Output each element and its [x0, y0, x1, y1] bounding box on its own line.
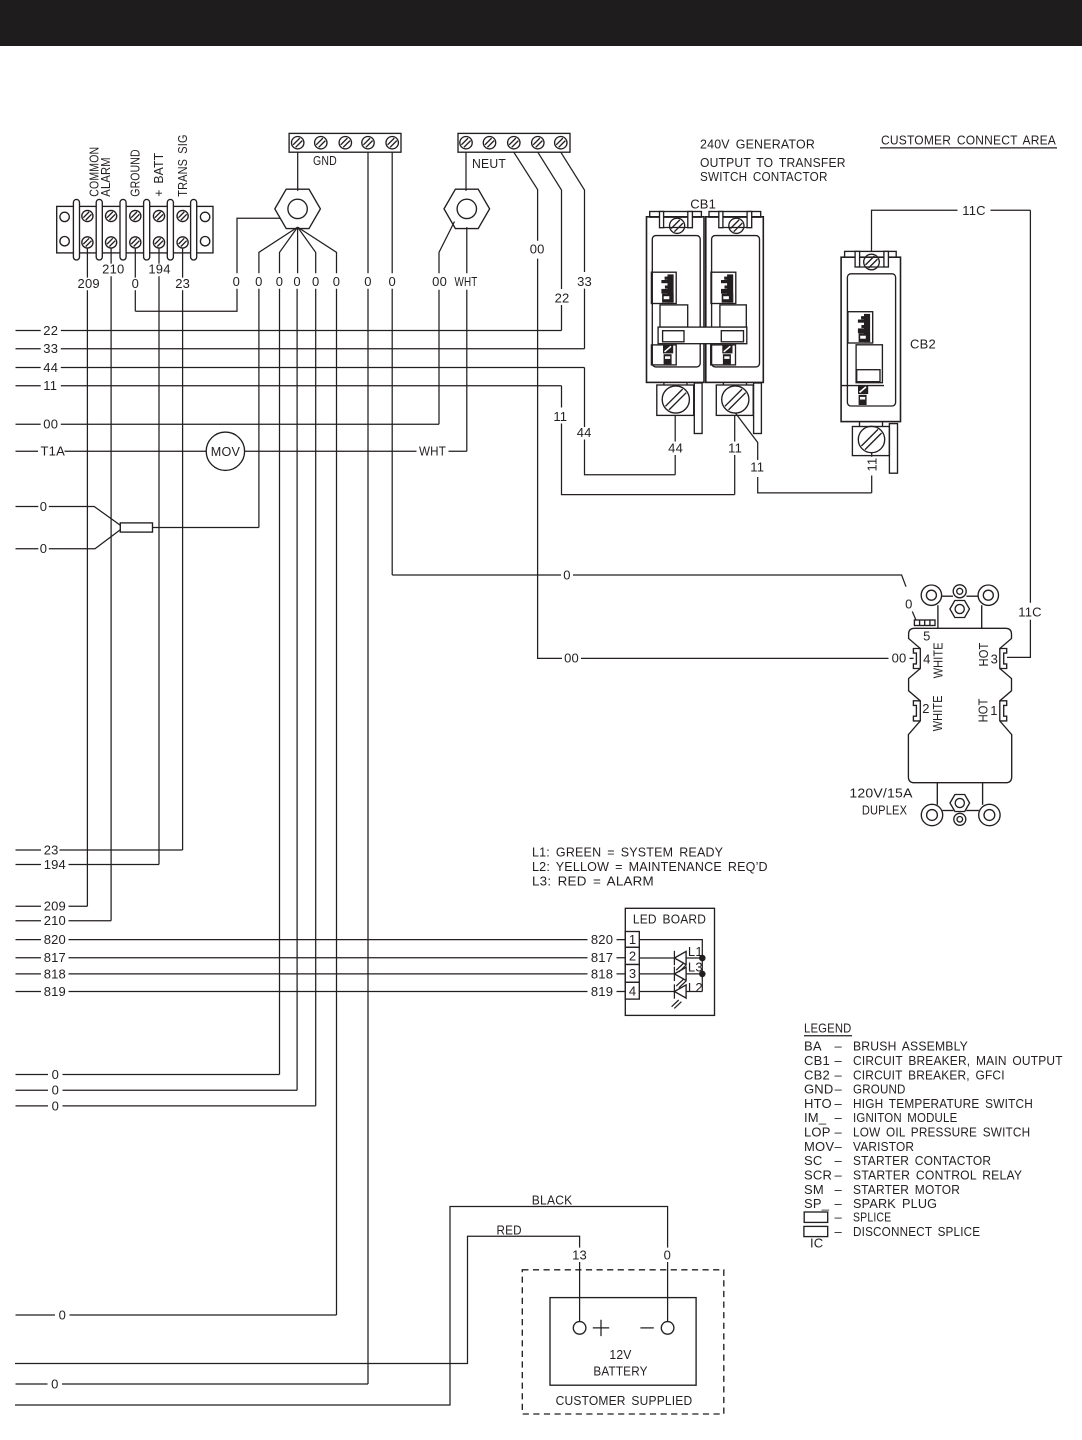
svg-text:0: 0 — [52, 1067, 59, 1082]
svg-text:33: 33 — [43, 341, 58, 356]
svg-text:L3: RED = ALARM: L3: RED = ALARM — [532, 873, 654, 888]
svg-text:00: 00 — [892, 651, 907, 666]
disconnect splice at duplex — [914, 620, 935, 626]
svg-text:44: 44 — [43, 360, 58, 375]
legend splice symbol — [804, 1210, 891, 1225]
wire bus 0 — [16, 1074, 280, 1076]
svg-text:0: 0 — [293, 274, 300, 289]
svg-text:LOW OIL PRESSURE SWITCH: LOW OIL PRESSURE SWITCH — [853, 1125, 1030, 1140]
wire CB1 pole2 to CB2 (11) — [735, 413, 871, 493]
svg-text:0: 0 — [52, 1098, 59, 1113]
battery negative terminal — [661, 1322, 674, 1335]
wire NEUT screw4 to 22 bus — [538, 152, 562, 330]
svg-text:1: 1 — [990, 703, 997, 718]
svg-text:209: 209 — [44, 899, 66, 914]
svg-text:L2: YELLOW = MAINTENANCE REQ’D: L2: YELLOW = MAINTENANCE REQ’D — [532, 859, 768, 874]
svg-text:–: – — [835, 1082, 843, 1097]
CB1 handle tie bar — [658, 327, 747, 344]
legend row SCR — [804, 1168, 1022, 1183]
svg-text:IC: IC — [810, 1236, 823, 1251]
terminal block TB1 — [57, 199, 213, 260]
legend row LOP — [804, 1125, 1030, 1140]
svg-text:0: 0 — [40, 499, 47, 514]
wire bus T1A with MOV — [16, 450, 467, 452]
svg-text:SM: SM — [804, 1182, 824, 1197]
svg-text:0: 0 — [905, 597, 912, 612]
svg-text:LOP: LOP — [804, 1125, 831, 1140]
svg-text:ALARM: ALARM — [98, 157, 113, 197]
terminal block screw column 3 bottom — [130, 237, 141, 248]
CB2 trip element upper — [848, 312, 873, 343]
svg-text:WHITE: WHITE — [930, 695, 945, 731]
svg-text:13: 13 — [572, 1247, 587, 1262]
svg-text:HOT: HOT — [976, 698, 991, 722]
wire neutral lug WHT down to T1A line — [466, 227, 468, 451]
svg-text:L1: L1 — [688, 944, 703, 959]
svg-text:00: 00 — [43, 417, 58, 432]
svg-text:209: 209 — [78, 276, 100, 291]
svg-text:TRANS SIG: TRANS SIG — [175, 134, 190, 196]
svg-text:CB2: CB2 — [910, 337, 936, 352]
svg-text:OUTPUT TO TRANSFER: OUTPUT TO TRANSFER — [700, 155, 846, 170]
svg-text:0: 0 — [388, 274, 395, 289]
duplex terminal 4 — [913, 649, 920, 669]
NEUT strip screw 5 — [555, 137, 567, 149]
wire bus 817 — [16, 957, 626, 959]
wire pin4 to LED L2 — [639, 991, 674, 993]
GND strip screw 1 — [292, 137, 304, 149]
svg-text:4: 4 — [629, 983, 636, 998]
ground lug nut below GND strip — [275, 189, 321, 228]
svg-text:194: 194 — [148, 262, 170, 277]
svg-text:–: – — [835, 1168, 843, 1183]
svg-text:BLACK: BLACK — [532, 1192, 573, 1207]
svg-text:1: 1 — [629, 932, 636, 947]
svg-text:817: 817 — [591, 950, 613, 965]
svg-text:3: 3 — [629, 966, 636, 981]
wire bus 0 — [16, 1105, 316, 1107]
wire bus 11 — [16, 385, 562, 387]
duplex terminal 1 — [1000, 701, 1007, 721]
circuit breaker CB1 pole 1 body — [647, 217, 705, 383]
title 240V generator output note — [700, 137, 846, 184]
svg-text:–: – — [835, 1067, 843, 1082]
GND strip screw 2 — [315, 137, 327, 149]
GND strip screw 4 — [362, 137, 374, 149]
svg-text:BA: BA — [804, 1039, 822, 1054]
wire bus 209 — [16, 905, 88, 907]
battery 12V — [550, 1298, 696, 1386]
LED board pin 3 — [625, 965, 639, 983]
neutral lug nut below NEUT strip — [444, 189, 490, 228]
svg-text:DISCONNECT SPLICE: DISCONNECT SPLICE — [853, 1224, 980, 1239]
wire bus 00 — [16, 423, 440, 425]
wire bus 0 — [16, 1089, 298, 1091]
svg-text:817: 817 — [44, 950, 66, 965]
svg-text:GND: GND — [313, 153, 337, 168]
svg-text:22: 22 — [555, 291, 570, 306]
CB2 trip element lower — [858, 386, 868, 394]
wire pin2 to LED L1 — [639, 957, 674, 959]
svg-text:DUPLEX: DUPLEX — [862, 802, 907, 817]
LED L3 — [674, 959, 702, 981]
svg-text:L3: L3 — [688, 959, 703, 974]
svg-text:194: 194 — [44, 857, 66, 872]
svg-text:210: 210 — [102, 262, 124, 277]
svg-text:23: 23 — [44, 842, 59, 857]
ground terminal strip GND — [289, 133, 401, 152]
svg-text:0: 0 — [52, 1083, 59, 1098]
svg-text:IGNITON MODULE: IGNITON MODULE — [853, 1110, 958, 1125]
wire ground fan line 4 (0) — [298, 227, 316, 1106]
legend row SP_ — [804, 1196, 937, 1211]
svg-text:L2: L2 — [688, 980, 703, 995]
svg-text:33: 33 — [577, 274, 592, 289]
svg-text:NEUT: NEUT — [472, 156, 506, 171]
wire bus 0 to GND screw4 drop — [16, 1383, 369, 1385]
legend row CB2 — [804, 1067, 1005, 1082]
svg-text:820: 820 — [44, 932, 66, 947]
wire bus 44 — [16, 367, 585, 369]
svg-text:0: 0 — [255, 274, 262, 289]
GND strip screw 3 — [339, 137, 351, 149]
CB2 divider line — [841, 385, 884, 387]
svg-text:BRUSH ASSEMBLY: BRUSH ASSEMBLY — [853, 1039, 968, 1054]
svg-text:HIGH TEMPERATURE SWITCH: HIGH TEMPERATURE SWITCH — [853, 1096, 1033, 1111]
duplex terminal 2 — [913, 701, 920, 721]
svg-text:23: 23 — [175, 276, 190, 291]
terminal block screw column 4 bottom — [153, 237, 164, 248]
terminal block screw column 2 bottom — [106, 237, 117, 248]
wire ground fan line 2 (0) — [280, 227, 298, 1074]
header bar — [0, 0, 1082, 46]
LED L1 — [674, 944, 702, 965]
svg-text:11: 11 — [43, 378, 57, 393]
svg-text:00: 00 — [530, 241, 545, 256]
wire terminal 194 drop — [158, 248, 160, 865]
wire ground fan line 5 (0) — [298, 227, 337, 1315]
neutral terminal strip NEUT — [458, 133, 570, 152]
NEUT strip screw 3 — [508, 137, 520, 149]
svg-text:STARTER MOTOR: STARTER MOTOR — [853, 1182, 960, 1197]
svg-text:818: 818 — [44, 966, 66, 981]
svg-text:240V GENERATOR: 240V GENERATOR — [700, 137, 815, 152]
legend row BA — [804, 1039, 968, 1054]
CB2 handle — [856, 345, 882, 383]
legend row GND — [804, 1082, 906, 1097]
wire ground lug to terminal block GROUND (via node 0) — [135, 218, 280, 311]
svg-text:2: 2 — [629, 949, 636, 964]
svg-text:SP_: SP_ — [804, 1196, 830, 1211]
wire bus 818 — [16, 973, 626, 975]
svg-text:–: – — [835, 1224, 843, 1239]
svg-text:0: 0 — [333, 274, 340, 289]
svg-text:CB1: CB1 — [804, 1053, 830, 1068]
CB1 pole1 bottom lug — [657, 382, 702, 433]
svg-text:L1: GREEN = SYSTEM READY: L1: GREEN = SYSTEM READY — [532, 845, 723, 860]
legend row IM_ — [804, 1110, 958, 1125]
svg-text:11: 11 — [750, 459, 764, 474]
terminal block screw column 2 top — [106, 210, 117, 221]
LED board pin 4 — [625, 982, 639, 999]
LED L2 — [674, 980, 702, 999]
svg-text:GND: GND — [804, 1082, 834, 1097]
svg-text:0: 0 — [312, 274, 319, 289]
svg-text:0: 0 — [59, 1307, 66, 1322]
customer supplied dashed box — [522, 1270, 724, 1414]
wire bus 819 — [16, 991, 626, 993]
svg-text:CB2: CB2 — [804, 1067, 830, 1082]
legend row SM — [804, 1182, 960, 1197]
svg-text:–: – — [835, 1182, 843, 1197]
wire bus 22 — [16, 330, 562, 332]
svg-text:WHT: WHT — [455, 274, 478, 289]
svg-text:MOV: MOV — [211, 444, 240, 459]
svg-text:819: 819 — [591, 984, 613, 999]
GND strip screw 5 — [386, 137, 398, 149]
duplex top mounting ears — [921, 585, 998, 629]
svg-text:–: – — [835, 1110, 843, 1125]
duplex label — [849, 785, 912, 817]
legend row SC — [804, 1153, 991, 1168]
wire 44 bus to CB1 pole1 — [585, 368, 676, 475]
wire ground fan line 1 (0) — [259, 227, 298, 527]
svg-text:0: 0 — [132, 276, 139, 291]
svg-text:WHT: WHT — [419, 444, 446, 459]
wire bus 194 — [16, 864, 160, 866]
svg-text:CB1: CB1 — [690, 196, 716, 211]
svg-text:120V/15A: 120V/15A — [849, 785, 912, 800]
NEUT strip screw 2 — [483, 137, 495, 149]
wire NEUT strip screw1 to neutral lug — [465, 152, 467, 191]
CB2 bottom lug — [852, 422, 897, 474]
svg-text:+ BATT: + BATT — [151, 153, 166, 197]
svg-text:11: 11 — [864, 458, 879, 472]
terminal block screw column 3 top — [130, 210, 141, 221]
legend — [804, 1020, 852, 1035]
svg-text:SCR: SCR — [804, 1168, 832, 1183]
svg-text:LEGEND: LEGEND — [804, 1020, 852, 1035]
legend disconnect splice symbol — [804, 1224, 981, 1239]
wire CB2 top to 11C — [872, 210, 1031, 657]
svg-text:819: 819 — [44, 984, 66, 999]
svg-text:210: 210 — [44, 913, 66, 928]
svg-text:00: 00 — [564, 651, 579, 666]
wire GND strip screw1 to ground lug — [297, 152, 299, 191]
LED board outline — [625, 908, 714, 1015]
svg-text:SC: SC — [804, 1153, 822, 1168]
CB1 pole1 handle — [660, 305, 688, 327]
LED board pin 2 — [625, 947, 639, 964]
CB1 pole2 trip element lower — [711, 345, 736, 365]
circuit breaker CB1 pole 2 body — [706, 217, 764, 383]
svg-text:–: – — [835, 1039, 843, 1054]
svg-text:RED: RED — [497, 1222, 522, 1237]
terminal block screw column 1 bottom — [82, 237, 93, 248]
svg-text:12V: 12V — [609, 1347, 631, 1362]
duplex pin labels — [922, 629, 998, 719]
svg-text:SWITCH CONTACTOR: SWITCH CONTACTOR — [700, 169, 828, 184]
wire GND strip screw5 down (0) — [391, 152, 393, 575]
svg-text:–: – — [835, 1125, 843, 1140]
LED board pin 1 — [625, 932, 639, 948]
svg-text:–: – — [835, 1210, 843, 1225]
label COMMON ALARM — [87, 147, 114, 197]
svg-text:–: – — [835, 1153, 843, 1168]
terminal block screw column 1 top — [82, 210, 93, 221]
legend row MOV — [804, 1139, 914, 1154]
wire NEUT screw5 to 33 bus — [561, 152, 585, 349]
CB1 pole2 bottom lug — [716, 382, 761, 433]
title customer connect area — [880, 133, 1057, 148]
svg-text:11: 11 — [728, 441, 742, 456]
svg-text:IM_: IM_ — [804, 1110, 827, 1125]
wire bus 0 to fan line 5 — [16, 1314, 337, 1316]
varistor MOV — [206, 432, 244, 470]
svg-text:T1A: T1A — [41, 444, 66, 459]
svg-text:SPLICE: SPLICE — [853, 1210, 891, 1225]
wire bus 33 — [16, 348, 585, 350]
svg-text:44: 44 — [577, 425, 592, 440]
wire splice to ground fan — [153, 527, 259, 529]
svg-text:11: 11 — [553, 409, 567, 424]
duplex body — [908, 628, 1011, 782]
wire terminal 210 drop — [110, 248, 112, 921]
wire RED battery positive — [15, 1236, 580, 1363]
svg-text:0: 0 — [664, 1247, 671, 1262]
svg-text:–: – — [835, 1139, 843, 1154]
svg-text:22: 22 — [43, 323, 58, 338]
svg-text:–: – — [835, 1053, 843, 1068]
svg-text:MOV: MOV — [804, 1139, 834, 1154]
svg-text:CIRCUIT BREAKER, MAIN OUTPUT: CIRCUIT BREAKER, MAIN OUTPUT — [853, 1053, 1063, 1068]
svg-text:CUSTOMER CONNECT AREA: CUSTOMER CONNECT AREA — [881, 133, 1056, 148]
wire 11 bus to CB1 pole2 — [562, 386, 735, 495]
svg-text:BATTERY: BATTERY — [593, 1364, 647, 1379]
legend row CB1 — [804, 1053, 1063, 1068]
svg-text:GROUND: GROUND — [128, 149, 143, 196]
wire 0 upper into splice — [16, 507, 121, 526]
CB1 pole1 trip element lower — [651, 345, 676, 365]
svg-text:0: 0 — [51, 1376, 58, 1391]
svg-text:STARTER CONTROL RELAY: STARTER CONTROL RELAY — [853, 1168, 1022, 1183]
wire terminal 23 drop — [182, 248, 184, 850]
svg-text:818: 818 — [591, 966, 613, 981]
wire BLACK battery negative — [15, 1207, 668, 1406]
svg-text:HTO: HTO — [804, 1096, 832, 1111]
svg-text:LED BOARD: LED BOARD — [633, 912, 706, 927]
terminal block screw column 4 top — [153, 210, 164, 221]
wire terminal 209 drop — [86, 248, 88, 906]
svg-text:0: 0 — [364, 274, 371, 289]
CB1 pole2 trip element upper — [711, 272, 736, 303]
svg-text:3: 3 — [991, 651, 998, 666]
LED legend note — [532, 845, 768, 889]
svg-text:820: 820 — [591, 932, 613, 947]
wire pin1 to LED cathode rail — [639, 940, 702, 992]
wire ground fan line 3 (0) — [296, 227, 299, 1090]
svg-text:0: 0 — [276, 274, 283, 289]
wire 0 lower into splice — [16, 530, 121, 549]
svg-text:11C: 11C — [962, 203, 985, 218]
wire bus 210 — [16, 920, 112, 922]
LED hatch marks — [672, 964, 686, 1009]
svg-text:11C: 11C — [1018, 604, 1041, 619]
svg-text:5: 5 — [923, 629, 930, 644]
NEUT strip screw 1 — [460, 137, 472, 149]
svg-text:0: 0 — [40, 541, 47, 556]
svg-text:0: 0 — [563, 567, 570, 582]
terminal block screw column 5 bottom — [177, 237, 188, 248]
svg-text:CIRCUIT BREAKER, GFCI: CIRCUIT BREAKER, GFCI — [853, 1067, 1005, 1082]
wire GND strip screw4 down (0) — [367, 152, 369, 1384]
CB1 pole2 handle — [720, 305, 746, 327]
svg-text:HOT: HOT — [976, 643, 991, 667]
svg-text:2: 2 — [922, 701, 929, 716]
svg-text:–: – — [835, 1096, 843, 1111]
svg-text:VARISTOR: VARISTOR — [853, 1139, 914, 1154]
duplex bottom mounting ears — [921, 783, 1000, 826]
svg-text:CUSTOMER SUPPLIED: CUSTOMER SUPPLIED — [556, 1393, 693, 1408]
junction dots — [699, 955, 706, 962]
wire bus 820 — [16, 939, 626, 941]
wire neutral lug diagonal to 00 bus — [439, 222, 455, 425]
CB1 pole1 trip element upper — [651, 272, 676, 303]
terminal block screw column 5 top — [177, 210, 188, 221]
circuit breaker CB2 body — [841, 251, 900, 421]
legend row HTO — [804, 1096, 1033, 1111]
splice — [120, 523, 152, 532]
svg-text:WHITE: WHITE — [930, 642, 945, 678]
svg-text:00: 00 — [432, 274, 447, 289]
wire pin3 to LED L3 — [639, 973, 674, 975]
battery positive terminal — [573, 1322, 586, 1335]
NEUT strip screw 4 — [532, 137, 544, 149]
svg-text:44: 44 — [668, 441, 683, 456]
svg-text:GROUND: GROUND — [853, 1082, 906, 1097]
svg-text:0: 0 — [233, 274, 240, 289]
wire 0 from GND screw5 to duplex splice — [392, 575, 916, 621]
wire NEUT screw3 to duplex white (00) — [514, 152, 914, 658]
duplex terminal 3 — [1000, 649, 1007, 669]
svg-text:STARTER CONTACTOR: STARTER CONTACTOR — [853, 1153, 991, 1168]
terminal drop labels — [78, 262, 191, 291]
wire bus 23 — [16, 849, 183, 851]
